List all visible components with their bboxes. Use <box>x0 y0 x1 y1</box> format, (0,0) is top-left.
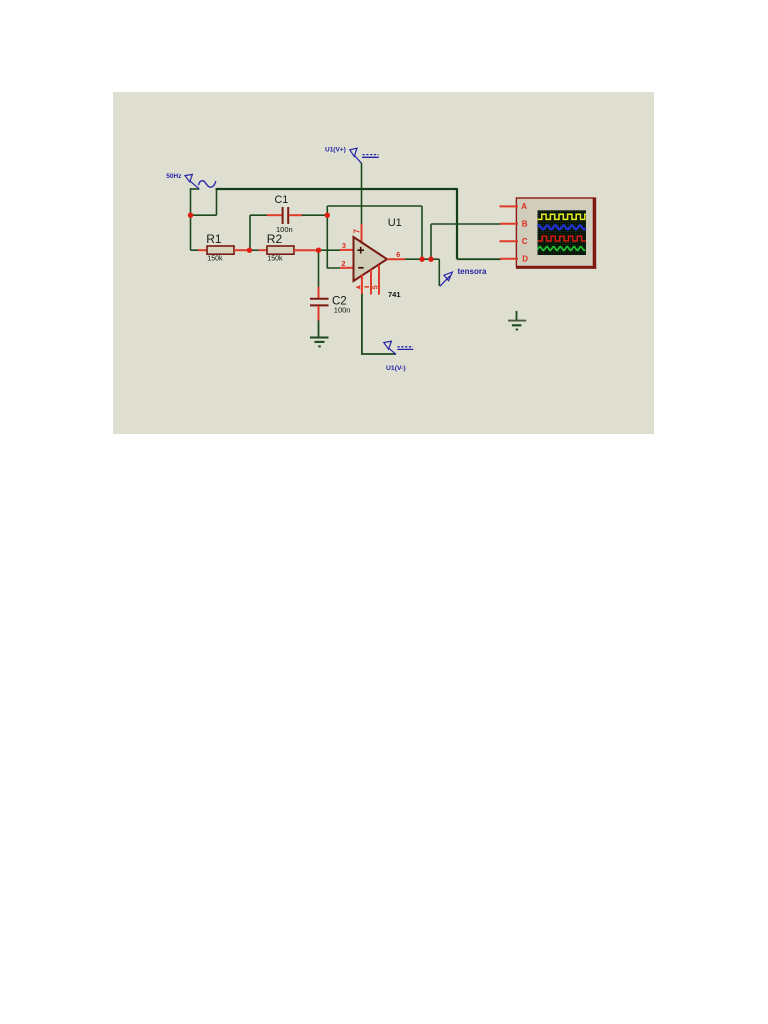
node: R1-R2 junction <box>247 248 252 253</box>
pin 3 stub <box>340 249 354 251</box>
svg-text:5: 5 <box>373 285 380 289</box>
svg-text:C1: C1 <box>275 194 289 206</box>
wire: pin 4 down to V- flag <box>362 294 396 354</box>
pin 1 marker arrow <box>355 285 360 289</box>
svg-text:U1(V-): U1(V-) <box>386 365 406 372</box>
wire: junction down to C2 <box>318 250 320 287</box>
wire: to C1 left <box>250 214 268 216</box>
net label tensora <box>440 276 450 287</box>
wire: R1R2 junction to R2 <box>252 249 260 251</box>
ground symbol right (floating) <box>516 311 518 321</box>
svg-text:150k: 150k <box>267 256 283 263</box>
wire: feedback up from C1 node <box>326 206 328 215</box>
channel D stub <box>500 258 518 260</box>
trace D green sine <box>538 247 586 251</box>
oscilloscope right band <box>593 197 596 268</box>
channel A stub <box>500 205 519 207</box>
minus symbol <box>358 267 363 269</box>
svg-text:A: A <box>521 202 527 211</box>
wire: feedback down to output <box>421 206 423 259</box>
pin 2 stub <box>340 267 354 269</box>
ground under C2 <box>310 337 329 339</box>
generator flag <box>185 174 192 181</box>
pin 1 stub <box>370 270 372 295</box>
oscilloscope bottom band <box>516 266 596 269</box>
svg-text:741: 741 <box>388 290 401 299</box>
wire: output to junctions <box>405 258 439 260</box>
capacitor C2 <box>318 287 320 299</box>
node: junction at generator net <box>188 213 193 218</box>
power flag U1(V-) <box>384 341 392 349</box>
wire: to R1 left <box>191 249 200 251</box>
resistor R2 <box>259 249 268 251</box>
wire: C1 branch vertical <box>249 215 251 250</box>
wire: generator output stub <box>191 188 200 190</box>
wire: feedback horizontal over op-amp <box>327 205 422 207</box>
wire: C1 node down to pin 2 <box>327 215 340 268</box>
wire: right vertical down to channel D <box>456 188 458 259</box>
wire: generator vertical down <box>190 188 192 215</box>
node: output junction 1 <box>419 257 424 262</box>
node: output junction 2 <box>428 257 433 262</box>
svg-text:6: 6 <box>396 252 400 259</box>
oscilloscope body <box>516 198 593 267</box>
wire: C1 right to junction <box>302 214 327 216</box>
wire: junction to pin 3 <box>319 249 341 251</box>
pin 4 stub (V-) <box>361 275 363 295</box>
node: R2 output junction <box>316 248 321 253</box>
wire: C2 to ground <box>318 321 320 338</box>
svg-text:U1: U1 <box>388 217 402 229</box>
wire: V+ down to pin 7 <box>361 163 363 224</box>
svg-text:R2: R2 <box>267 232 283 246</box>
generator sine symbol <box>199 181 216 188</box>
svg-text:B: B <box>522 220 528 229</box>
oscilloscope screen <box>538 210 586 255</box>
wire: horizontal to channel D <box>457 258 501 260</box>
svg-text:50Hz: 50Hz <box>166 173 182 180</box>
svg-text:U1(V+): U1(V+) <box>325 146 346 153</box>
op-amp U1 triangle <box>354 237 388 281</box>
wire: jog vertical up <box>216 188 218 215</box>
wire: jog horizontal <box>191 214 217 216</box>
svg-text:7: 7 <box>352 229 361 234</box>
channel C stub <box>500 240 519 242</box>
pin 7 stub <box>361 224 363 243</box>
svg-text:150k: 150k <box>207 256 223 263</box>
wire: horizontal to channel B <box>431 223 501 225</box>
node: C1 right junction <box>325 213 330 218</box>
wire: long top wire to scope <box>216 188 458 190</box>
svg-text:2: 2 <box>342 261 346 268</box>
svg-text:D: D <box>522 255 528 264</box>
wire: tensora net down <box>438 259 440 286</box>
trace C red square <box>538 236 586 241</box>
trace B blue sine <box>538 225 586 229</box>
wire: up to channel B <box>430 224 432 259</box>
pin marker dash <box>365 286 370 288</box>
plus symbol <box>357 247 364 254</box>
svg-text:100n: 100n <box>334 305 351 314</box>
pin 6 stub <box>387 258 405 260</box>
svg-text:R1: R1 <box>206 232 222 246</box>
resistor R1 <box>198 249 208 251</box>
svg-text:C: C <box>522 237 528 246</box>
channel B stub <box>500 223 518 225</box>
svg-text:3: 3 <box>342 243 346 250</box>
capacitor C1 <box>267 214 282 216</box>
wire: generator down to R1 <box>190 215 192 250</box>
trace A yellow square <box>538 214 586 219</box>
pin 5 stub <box>378 265 380 295</box>
svg-text:tensora: tensora <box>458 267 487 276</box>
